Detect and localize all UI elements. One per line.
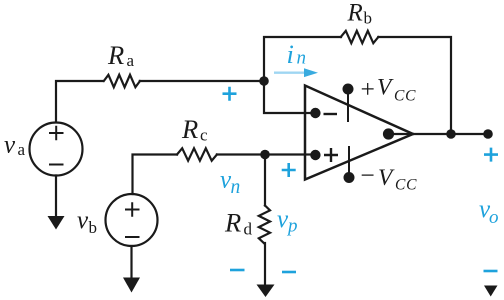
svg-text:b: b [89, 218, 98, 237]
svg-text:o: o [489, 207, 499, 228]
svg-text:n: n [297, 48, 307, 69]
svg-text:n: n [231, 177, 241, 198]
svg-text:R: R [224, 208, 241, 238]
svg-text:v: v [4, 132, 16, 159]
svg-text:R: R [107, 40, 124, 70]
svg-text:c: c [200, 126, 208, 145]
svg-text:p: p [286, 216, 298, 237]
svg-text:a: a [127, 51, 135, 70]
svg-text:−: − [361, 161, 375, 190]
svg-text:R: R [347, 0, 363, 27]
svg-text:d: d [244, 220, 253, 239]
svg-text:+: + [361, 75, 375, 104]
svg-text:i: i [287, 39, 294, 69]
svg-text:CC: CC [394, 88, 416, 105]
svg-text:b: b [364, 9, 373, 28]
svg-text:a: a [18, 140, 26, 159]
svg-text:v: v [77, 207, 89, 234]
svg-text:R: R [181, 114, 198, 144]
svg-text:CC: CC [395, 177, 417, 194]
